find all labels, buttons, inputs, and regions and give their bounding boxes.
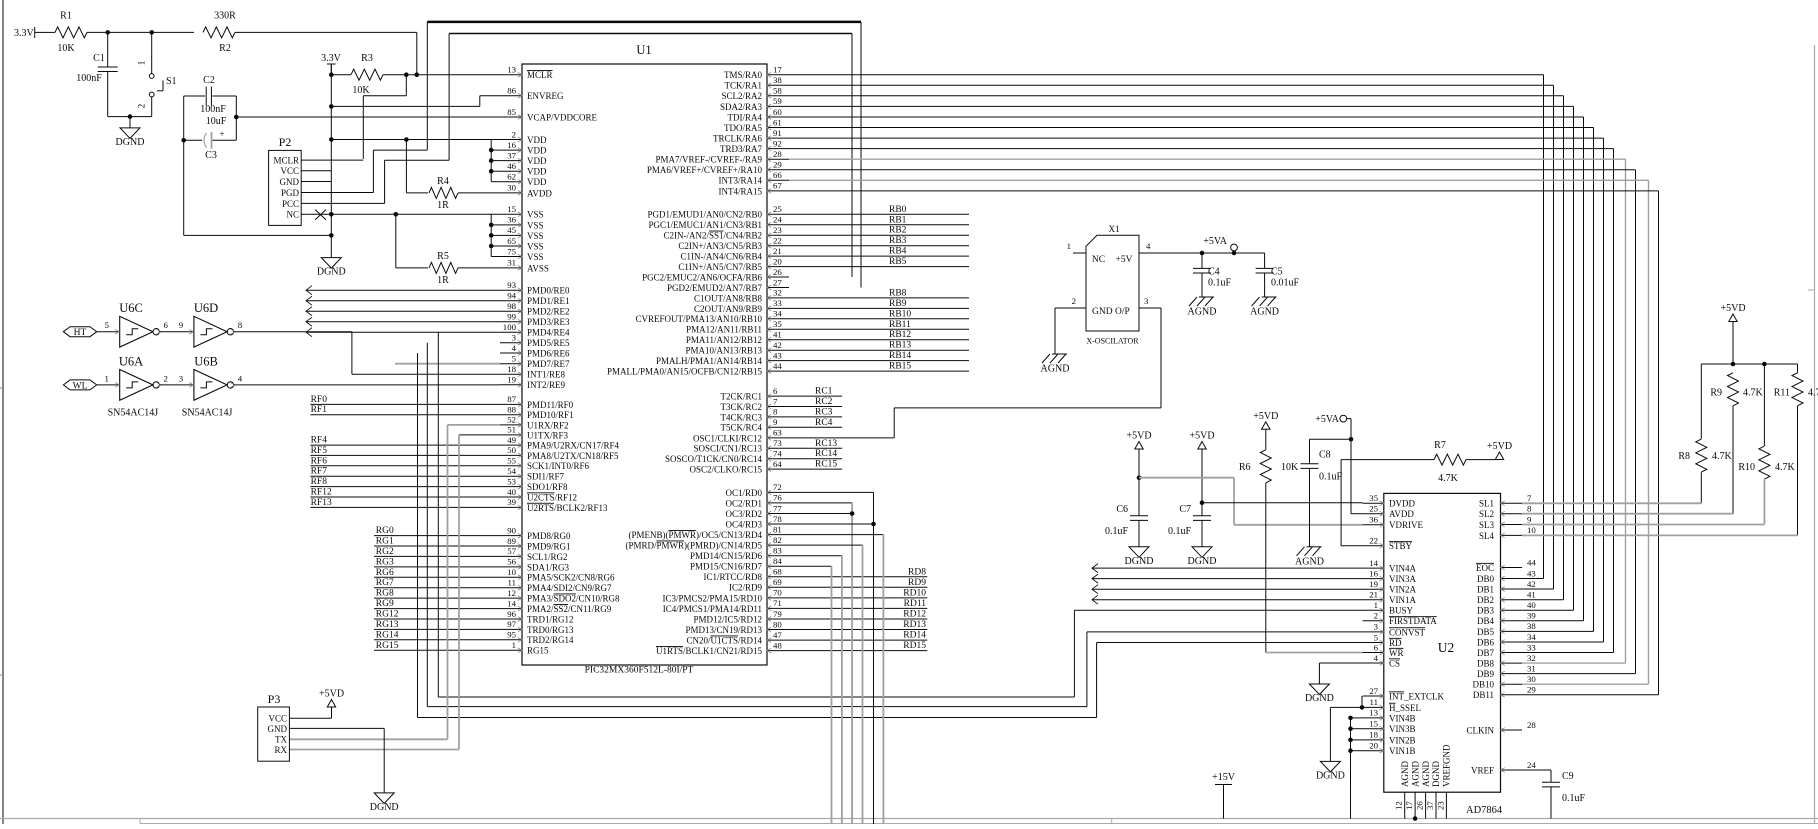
wire CONVST <box>1087 631 1363 633</box>
svg-text:47: 47 <box>773 630 782 640</box>
svg-text:42: 42 <box>773 340 782 350</box>
svg-text:IC2/RD9: IC2/RD9 <box>729 583 763 593</box>
svg-text:RB2: RB2 <box>889 226 907 236</box>
svg-text:92: 92 <box>773 138 782 148</box>
svg-text:VDD: VDD <box>527 135 547 145</box>
svg-text:INT4/RA15: INT4/RA15 <box>719 186 763 196</box>
svg-text:TDI/RA4: TDI/RA4 <box>728 112 763 122</box>
svg-text:VDD: VDD <box>527 177 547 187</box>
wire RF2 net (grey) <box>448 424 501 426</box>
U1 pin 99 PMD3/RE3 <box>500 321 522 323</box>
svg-text:PMD11/RF0: PMD11/RF0 <box>527 400 574 410</box>
svg-text:RG6: RG6 <box>376 568 394 578</box>
svg-text:6: 6 <box>773 386 778 396</box>
U1 pin 51 U1TX/RF3 <box>500 434 522 436</box>
wire SL2 (grey) <box>1522 513 1733 515</box>
wire INT_EXTCLK tie <box>1361 696 1363 707</box>
svg-text:58: 58 <box>773 86 782 96</box>
svg-text:VSS: VSS <box>527 220 544 230</box>
svg-text:SL3: SL3 <box>1479 520 1495 530</box>
U2 pin 7 SL1 <box>1501 502 1523 504</box>
svg-text:BUSY: BUSY <box>1389 606 1414 616</box>
svg-text:23: 23 <box>773 225 782 235</box>
svg-text:TDO/RA5: TDO/RA5 <box>724 123 762 133</box>
svg-text:H_SSEL: H_SSEL <box>1389 703 1421 713</box>
svg-text:+15V: +15V <box>1212 772 1236 783</box>
svg-text:43: 43 <box>773 350 782 360</box>
svg-text:10K: 10K <box>352 85 370 96</box>
svg-text:DGND: DGND <box>317 267 346 278</box>
resistor R2 330R <box>203 27 235 38</box>
svg-text:AGND: AGND <box>1410 761 1420 787</box>
svg-text:100nF: 100nF <box>200 104 226 115</box>
U1 pin 28 PMA7/VREF-/CVREF-/RA9 <box>767 158 789 160</box>
svg-text:VSS: VSS <box>527 241 544 251</box>
svg-text:25: 25 <box>1369 504 1378 514</box>
wire SL3 (grey) <box>1522 524 1764 526</box>
svg-text:62: 62 <box>507 172 516 182</box>
svg-text:CONVST: CONVST <box>1389 627 1426 637</box>
svg-text:66: 66 <box>773 170 782 180</box>
U2 pin 8 SL2 <box>1501 513 1523 515</box>
U1 pin 72 OC1/RD0 <box>767 491 789 493</box>
svg-text:AGND: AGND <box>1400 761 1410 787</box>
svg-text:CN20/U1CTS/RD14: CN20/U1CTS/RD14 <box>686 636 762 646</box>
svg-text:C1OUT/AN8/RB8: C1OUT/AN8/RB8 <box>694 293 763 303</box>
svg-text:19: 19 <box>1369 579 1378 589</box>
svg-text:RB15: RB15 <box>889 362 911 372</box>
U2 pin 16 VIN3A <box>1363 578 1384 580</box>
wire VDD rail <box>331 139 500 141</box>
wire RA-DB bus 5 <box>789 127 1594 129</box>
wire P3 VCC <box>289 717 331 719</box>
U2 pin 20 VIN1B <box>1363 750 1384 752</box>
svg-text:85: 85 <box>507 107 516 117</box>
svg-text:67: 67 <box>773 181 782 191</box>
svg-text:C2IN+/AN3/CN5/RB3: C2IN+/AN3/CN5/RB3 <box>678 241 762 251</box>
svg-text:55: 55 <box>507 456 516 466</box>
svg-text:15: 15 <box>1369 719 1378 729</box>
svg-text:PMD3/RE3: PMD3/RE3 <box>527 317 570 327</box>
svg-text:52: 52 <box>507 415 516 425</box>
U2 pin 22 STBY <box>1363 545 1384 547</box>
svg-text:SL4: SL4 <box>1479 531 1495 541</box>
op-amp U2 AD7864 (IC body) <box>1384 493 1501 792</box>
resistor R3 10K <box>331 74 351 76</box>
svg-text:PMD10/RF1: PMD10/RF1 <box>527 410 574 420</box>
U2 pin 42 DB1 <box>1501 588 1523 590</box>
U1 pin 82 (PMRD/PMWR)(PMRD)/CN14/RD5 <box>767 544 789 546</box>
wire RD5 <box>789 544 863 546</box>
svg-text:69: 69 <box>773 577 782 587</box>
svg-text:82: 82 <box>773 535 782 545</box>
U1 pin 80 PMD13/CN19/RD13 <box>767 629 789 631</box>
svg-text:PMA5/SCK2/CN8/RG6: PMA5/SCK2/CN8/RG6 <box>527 573 615 583</box>
wire R1 to R2 <box>108 31 194 33</box>
svg-text:71: 71 <box>773 598 782 608</box>
svg-text:PMA3/SDO2/CN10/RG8: PMA3/SDO2/CN10/RG8 <box>527 594 620 604</box>
svg-text:(PMENB)(PMWR)/OC5/CN13/RD4: (PMENB)(PMWR)/OC5/CN13/RD4 <box>628 530 762 540</box>
svg-text:DB10: DB10 <box>1472 680 1494 690</box>
U1 pin 91 TRCLK/RA6 <box>767 137 789 139</box>
U2 pin 38 DB5 <box>1501 630 1523 632</box>
svg-text:RG14: RG14 <box>376 630 399 640</box>
svg-text:13: 13 <box>1369 708 1378 718</box>
svg-text:U6C: U6C <box>119 301 143 315</box>
U1 pin 79 PMD12/IC5/RD12 <box>767 618 789 620</box>
U1 pin 45 VSS <box>500 234 522 236</box>
svg-text:24: 24 <box>773 215 782 225</box>
U1 pin 39 U2RTS/BCLK2/RF13 <box>500 506 522 508</box>
svg-text:RG3: RG3 <box>376 557 394 567</box>
svg-text:DVDD: DVDD <box>1389 499 1415 509</box>
capacitor C3 (10uF polarized) <box>184 139 202 141</box>
U1 pin 60 TDI/RA4 <box>767 116 789 118</box>
svg-text:28: 28 <box>1527 720 1536 730</box>
svg-text:RB11: RB11 <box>889 320 911 330</box>
svg-text:35: 35 <box>1369 493 1378 503</box>
svg-text:96: 96 <box>507 609 516 619</box>
svg-text:PMALH/PMA1/AN14/RB14: PMALH/PMA1/AN14/RB14 <box>656 356 763 366</box>
svg-text:40: 40 <box>507 487 516 497</box>
U1 pin 37 VDD <box>500 160 522 162</box>
svg-text:INT3/RA14: INT3/RA14 <box>719 176 763 186</box>
svg-text:RF7: RF7 <box>311 467 328 477</box>
svg-text:WR: WR <box>1389 648 1404 658</box>
svg-text:19: 19 <box>507 375 516 385</box>
U1 pin 9 T5CK/RC4 <box>767 426 789 428</box>
svg-text:VIN4B: VIN4B <box>1389 713 1416 723</box>
svg-text:54: 54 <box>507 466 516 476</box>
svg-text:97: 97 <box>507 619 516 629</box>
svg-text:33: 33 <box>773 298 782 308</box>
svg-text:X-OSCILATOR: X-OSCILATOR <box>1086 337 1139 346</box>
svg-text:RD12: RD12 <box>903 610 926 620</box>
svg-text:3: 3 <box>1374 622 1379 632</box>
wire X1 pin3 to OSC1 <box>1160 308 1162 408</box>
svg-text:R5: R5 <box>437 251 449 262</box>
resistor R9 4.7K <box>1728 373 1739 406</box>
U2 pin 23 VREFGND (bottom) <box>1445 792 1447 818</box>
svg-text:PMD7/RE7: PMD7/RE7 <box>527 359 570 369</box>
ground AGND (X1) <box>1054 308 1056 354</box>
ground AGND (C8) <box>1307 546 1322 548</box>
svg-text:RG15: RG15 <box>376 641 399 651</box>
svg-text:29: 29 <box>1527 685 1536 695</box>
U1 pin 71 IC4/PMCS1/PMA14/RD11 <box>767 607 789 609</box>
svg-text:8: 8 <box>238 320 243 330</box>
U2 pin 6 WR <box>1363 652 1384 654</box>
U2 pin 4 CS <box>1363 662 1384 664</box>
svg-text:RC2: RC2 <box>815 397 833 407</box>
svg-text:U6A: U6A <box>119 354 143 368</box>
svg-text:RB5: RB5 <box>889 257 907 267</box>
svg-text:RB9: RB9 <box>889 299 907 309</box>
svg-text:+5VD: +5VD <box>1126 431 1151 442</box>
svg-text:INT2/RE9: INT2/RE9 <box>527 380 565 390</box>
svg-text:18: 18 <box>1369 730 1378 740</box>
svg-text:2: 2 <box>163 373 167 383</box>
U2 pin 12 AGND (bottom) <box>1404 792 1406 818</box>
U1 pin 8 T4CK/RC3 <box>767 416 789 418</box>
svg-text:+5VD: +5VD <box>319 689 344 700</box>
svg-text:DGND: DGND <box>116 137 145 148</box>
U2 pin 15 VIN3B <box>1363 728 1384 730</box>
svg-text:90: 90 <box>507 525 516 535</box>
svg-text:SDI1/RF7: SDI1/RF7 <box>527 472 565 482</box>
U2 pin 36 VDRIVE <box>1363 524 1384 526</box>
wire C2/C3 right leg (VCAP net) <box>235 96 237 140</box>
svg-text:DB0: DB0 <box>1477 574 1495 584</box>
U2 pin 2 FIRSTDATA <box>1363 620 1384 622</box>
U1 pin 63 OSC1/CLKI/RC12 <box>767 437 789 439</box>
svg-text:AVSS: AVSS <box>527 263 549 273</box>
svg-text:RD13: RD13 <box>903 620 926 630</box>
svg-text:R7: R7 <box>1434 440 1446 451</box>
U2 pin 14 VIN4A <box>1363 567 1384 569</box>
svg-text:24: 24 <box>1527 760 1536 770</box>
svg-text:VIN1A: VIN1A <box>1389 595 1416 605</box>
resistor R8 4.7K <box>1700 364 1702 439</box>
svg-text:7: 7 <box>1527 493 1532 503</box>
U1 pin 44 PMALL/PMA0/AN15/OCFB/CN12/RB15 <box>767 370 789 372</box>
svg-text:PGD1/EMUD1/AN0/CN2/RB0: PGD1/EMUD1/AN0/CN2/RB0 <box>647 210 762 220</box>
svg-text:VSS: VSS <box>527 210 544 220</box>
svg-text:22: 22 <box>773 236 782 246</box>
svg-text:72: 72 <box>773 482 782 492</box>
svg-text:35: 35 <box>773 319 782 329</box>
svg-text:VIN2B: VIN2B <box>1389 735 1416 745</box>
wire RA-DB bus 3 <box>789 105 1574 107</box>
svg-text:PMD0/RE0: PMD0/RE0 <box>527 286 570 296</box>
svg-text:PMA6/VREF+/CVREF+/RA10: PMA6/VREF+/CVREF+/RA10 <box>647 165 763 175</box>
svg-text:59: 59 <box>773 96 782 106</box>
svg-text:DGND: DGND <box>1305 693 1334 704</box>
svg-text:100nF: 100nF <box>76 73 102 84</box>
U1 pin 76 OC2/RD1 <box>767 502 789 504</box>
wire P3 GND to DGND <box>289 727 384 729</box>
wire R2 down to MCLR node <box>416 32 418 74</box>
svg-text:C4: C4 <box>1208 267 1220 278</box>
U1 pin 70 IC3/PMCS2/PMA15/RD10 <box>767 597 789 599</box>
svg-text:21: 21 <box>773 246 782 256</box>
U1 pin 49 PMA9/U2RX/CN17/RF4 <box>500 444 522 446</box>
svg-text:PIC32MX360F512L-80I/PT: PIC32MX360F512L-80I/PT <box>585 666 694 676</box>
svg-text:46: 46 <box>507 161 516 171</box>
U1 pin 14 PMA2/SS2/CN11/RG9 <box>500 608 522 610</box>
wire RD0 <box>789 491 874 493</box>
wire SL4 (grey) <box>1522 534 1798 536</box>
svg-text:PGD2/EMUD2/AN7/RB7: PGD2/EMUD2/AN7/RB7 <box>667 283 763 293</box>
svg-text:SCL2/RA2: SCL2/RA2 <box>721 91 762 101</box>
wire RA-DB bus 9 <box>789 169 1636 171</box>
U1 pin 41 PMA11/AN12/RB12 <box>767 339 789 341</box>
capacitor C4 <box>1201 253 1203 268</box>
svg-text:53: 53 <box>507 476 516 486</box>
svg-text:22: 22 <box>1369 536 1378 546</box>
svg-text:RG9: RG9 <box>376 599 394 609</box>
svg-text:DB1: DB1 <box>1477 584 1494 594</box>
svg-text:0.01uF: 0.01uF <box>1271 278 1300 289</box>
capacitor C5 <box>1264 253 1266 268</box>
wire RA-DB bus 1 <box>789 84 1554 86</box>
sheet border right <box>1814 45 1816 824</box>
svg-text:PMD6/RE6: PMD6/RE6 <box>527 348 570 358</box>
U2 pin 28 CLKIN <box>1501 729 1523 731</box>
svg-text:C1IN-/AN4/CN6/RB4: C1IN-/AN4/CN6/RB4 <box>680 252 762 262</box>
wire VDRIVE net (grey) <box>1139 477 1234 479</box>
U1 pin 85 VCAP/VDDCORE <box>500 116 522 118</box>
svg-text:TRCLK/RA6: TRCLK/RA6 <box>713 134 763 144</box>
U1 pin 40 U2CTS/RF12 <box>500 496 522 498</box>
svg-text:VCAP/VDDCORE: VCAP/VDDCORE <box>527 112 598 122</box>
svg-text:RF12: RF12 <box>311 488 332 498</box>
power +5VD (R7) <box>1495 452 1503 460</box>
U2 pin 40 DB3 <box>1501 609 1523 611</box>
svg-text:OC2/RD1: OC2/RD1 <box>725 498 762 508</box>
svg-text:74: 74 <box>773 449 782 459</box>
svg-text:DGND: DGND <box>1316 770 1345 781</box>
U2 pin 39 DB4 <box>1501 620 1523 622</box>
U1 pin 25 PGD1/EMUD1/AN0/CN2/RB0 <box>767 213 789 215</box>
svg-text:43: 43 <box>1527 568 1536 578</box>
wire U6A to U6B <box>160 384 194 386</box>
connector P3 <box>258 707 290 761</box>
svg-text:DB6: DB6 <box>1477 637 1495 647</box>
svg-text:C6: C6 <box>1116 504 1128 515</box>
svg-text:30: 30 <box>1527 674 1536 684</box>
power +5VA (osc) <box>1231 244 1238 251</box>
svg-text:1R: 1R <box>437 200 449 211</box>
net flag WL <box>63 380 96 390</box>
svg-text:PMD9/RG1: PMD9/RG1 <box>527 541 571 551</box>
U1 pin 62 VDD <box>500 181 522 183</box>
svg-text:VDD: VDD <box>527 146 547 156</box>
svg-text:TRD3/RA7: TRD3/RA7 <box>720 144 763 154</box>
svg-text:34: 34 <box>1527 632 1536 642</box>
op-amp (inverter) U6D <box>194 316 227 347</box>
svg-text:C2OUT/AN9/RB9: C2OUT/AN9/RB9 <box>694 304 763 314</box>
svg-text:RB8: RB8 <box>889 288 907 298</box>
U1 pin 16 VDD <box>500 149 522 151</box>
svg-text:78: 78 <box>773 514 782 524</box>
wire RA-DB bus 4 <box>789 116 1584 118</box>
svg-text:PMA11/AN12/RB12: PMA11/AN12/RB12 <box>686 335 762 345</box>
U1 pin 54 SDI1/RF7 <box>500 475 522 477</box>
svg-text:AVDD: AVDD <box>1389 509 1414 519</box>
svg-text:10: 10 <box>1527 525 1536 535</box>
svg-text:EOC: EOC <box>1476 563 1494 573</box>
svg-text:+5VD: +5VD <box>1189 431 1214 442</box>
svg-text:AGND: AGND <box>1041 364 1070 375</box>
svg-text:R1: R1 <box>60 11 72 22</box>
svg-text:T5CK/RC4: T5CK/RC4 <box>720 423 762 433</box>
svg-text:C2IN-/AN2/SS1/CN4/RB2: C2IN-/AN2/SS1/CN4/RB2 <box>663 231 762 241</box>
svg-text:42: 42 <box>1527 579 1536 589</box>
U1 pin 30 AVDD <box>500 192 522 194</box>
svg-text:DB5: DB5 <box>1477 627 1495 637</box>
op-amp (inverter) U6A <box>120 370 153 401</box>
svg-text:CS: CS <box>1389 658 1400 668</box>
switch S1 <box>151 32 153 73</box>
svg-text:+5V: +5V <box>1116 255 1133 265</box>
power +5VD (C7) <box>1198 442 1206 450</box>
connector P2 <box>269 150 302 225</box>
svg-text:3: 3 <box>1144 296 1149 306</box>
svg-text:IC3/PMCS2/PMA15/RD10: IC3/PMCS2/PMA15/RD10 <box>662 593 762 603</box>
svg-text:NC: NC <box>1092 255 1105 265</box>
svg-text:34: 34 <box>773 309 782 319</box>
ground DGND (H_SSEL) <box>1320 761 1340 772</box>
svg-text:2: 2 <box>1072 296 1076 306</box>
svg-text:RC13: RC13 <box>815 439 837 449</box>
svg-text:AGND: AGND <box>1421 761 1431 787</box>
svg-text:16: 16 <box>507 140 516 150</box>
svg-text:VDD: VDD <box>527 156 547 166</box>
svg-text:AGND: AGND <box>1188 307 1217 318</box>
wire RD3 <box>789 523 874 525</box>
svg-text:RC3: RC3 <box>815 407 833 417</box>
svg-text:DB11: DB11 <box>1473 690 1494 700</box>
svg-text:TMS/RA0: TMS/RA0 <box>724 70 763 80</box>
svg-text:VSS: VSS <box>527 252 544 262</box>
svg-text:U1TX/RF3: U1TX/RF3 <box>527 430 569 440</box>
svg-text:18: 18 <box>507 364 516 374</box>
wire PMD7 (grey) <box>395 363 500 365</box>
svg-text:50: 50 <box>507 445 516 455</box>
svg-text:RG7: RG7 <box>376 578 394 588</box>
sheet border left <box>2 0 4 824</box>
svg-text:61: 61 <box>773 117 782 127</box>
net flag HT <box>63 327 96 337</box>
U1 pin 22 C2IN+/AN3/CN5/RB3 <box>767 245 789 247</box>
svg-text:PMA4/SDI2/CN9/RG7: PMA4/SDI2/CN9/RG7 <box>527 583 612 593</box>
ground DGND (CS) <box>1309 684 1329 695</box>
svg-text:PMA10/AN13/RB13: PMA10/AN13/RB13 <box>685 346 762 356</box>
svg-text:RF4: RF4 <box>311 436 328 446</box>
svg-text:RG1: RG1 <box>376 537 394 547</box>
svg-text:RD11: RD11 <box>904 599 927 609</box>
wire AVDD net <box>1351 513 1363 515</box>
svg-text:0.1uF: 0.1uF <box>1168 526 1192 537</box>
svg-text:R11: R11 <box>1774 388 1790 399</box>
svg-text:SOSCI/CN1/RC13: SOSCI/CN1/RC13 <box>693 444 762 454</box>
U1 pin 46 VDD <box>500 170 522 172</box>
op-amp (inverter) U6C <box>120 316 153 347</box>
svg-text:RG13: RG13 <box>376 620 399 630</box>
svg-text:NC: NC <box>286 210 299 220</box>
U1 pin 84 PMD15/CN16/RD7 <box>767 565 789 567</box>
svg-text:6: 6 <box>1374 642 1379 652</box>
U2 pin 37 DGND (bottom) <box>1435 792 1437 818</box>
bus wire PCC-RB6 <box>448 34 450 161</box>
svg-text:0.1uF: 0.1uF <box>1208 278 1232 289</box>
svg-text:OSC2/CLKO/RC15: OSC2/CLKO/RC15 <box>689 465 762 475</box>
U2 pin 13 VIN4B <box>1363 717 1384 719</box>
svg-text:RC1: RC1 <box>815 387 833 397</box>
svg-text:DGND: DGND <box>1188 556 1217 567</box>
svg-text:31: 31 <box>507 258 516 268</box>
svg-text:MCLR: MCLR <box>527 70 553 80</box>
svg-text:25: 25 <box>773 204 782 214</box>
svg-text:17: 17 <box>1404 801 1414 810</box>
svg-text:68: 68 <box>773 567 782 577</box>
svg-text:86: 86 <box>507 86 516 96</box>
U1 pin 17 TMS/RA0 <box>767 74 789 76</box>
U2 pin 25 AVDD <box>1363 513 1384 515</box>
svg-text:PGC2/EMUC2/AN6/OCFA/RB6: PGC2/EMUC2/AN6/OCFA/RB6 <box>642 272 762 282</box>
ground DGND (C7) <box>1192 547 1212 558</box>
